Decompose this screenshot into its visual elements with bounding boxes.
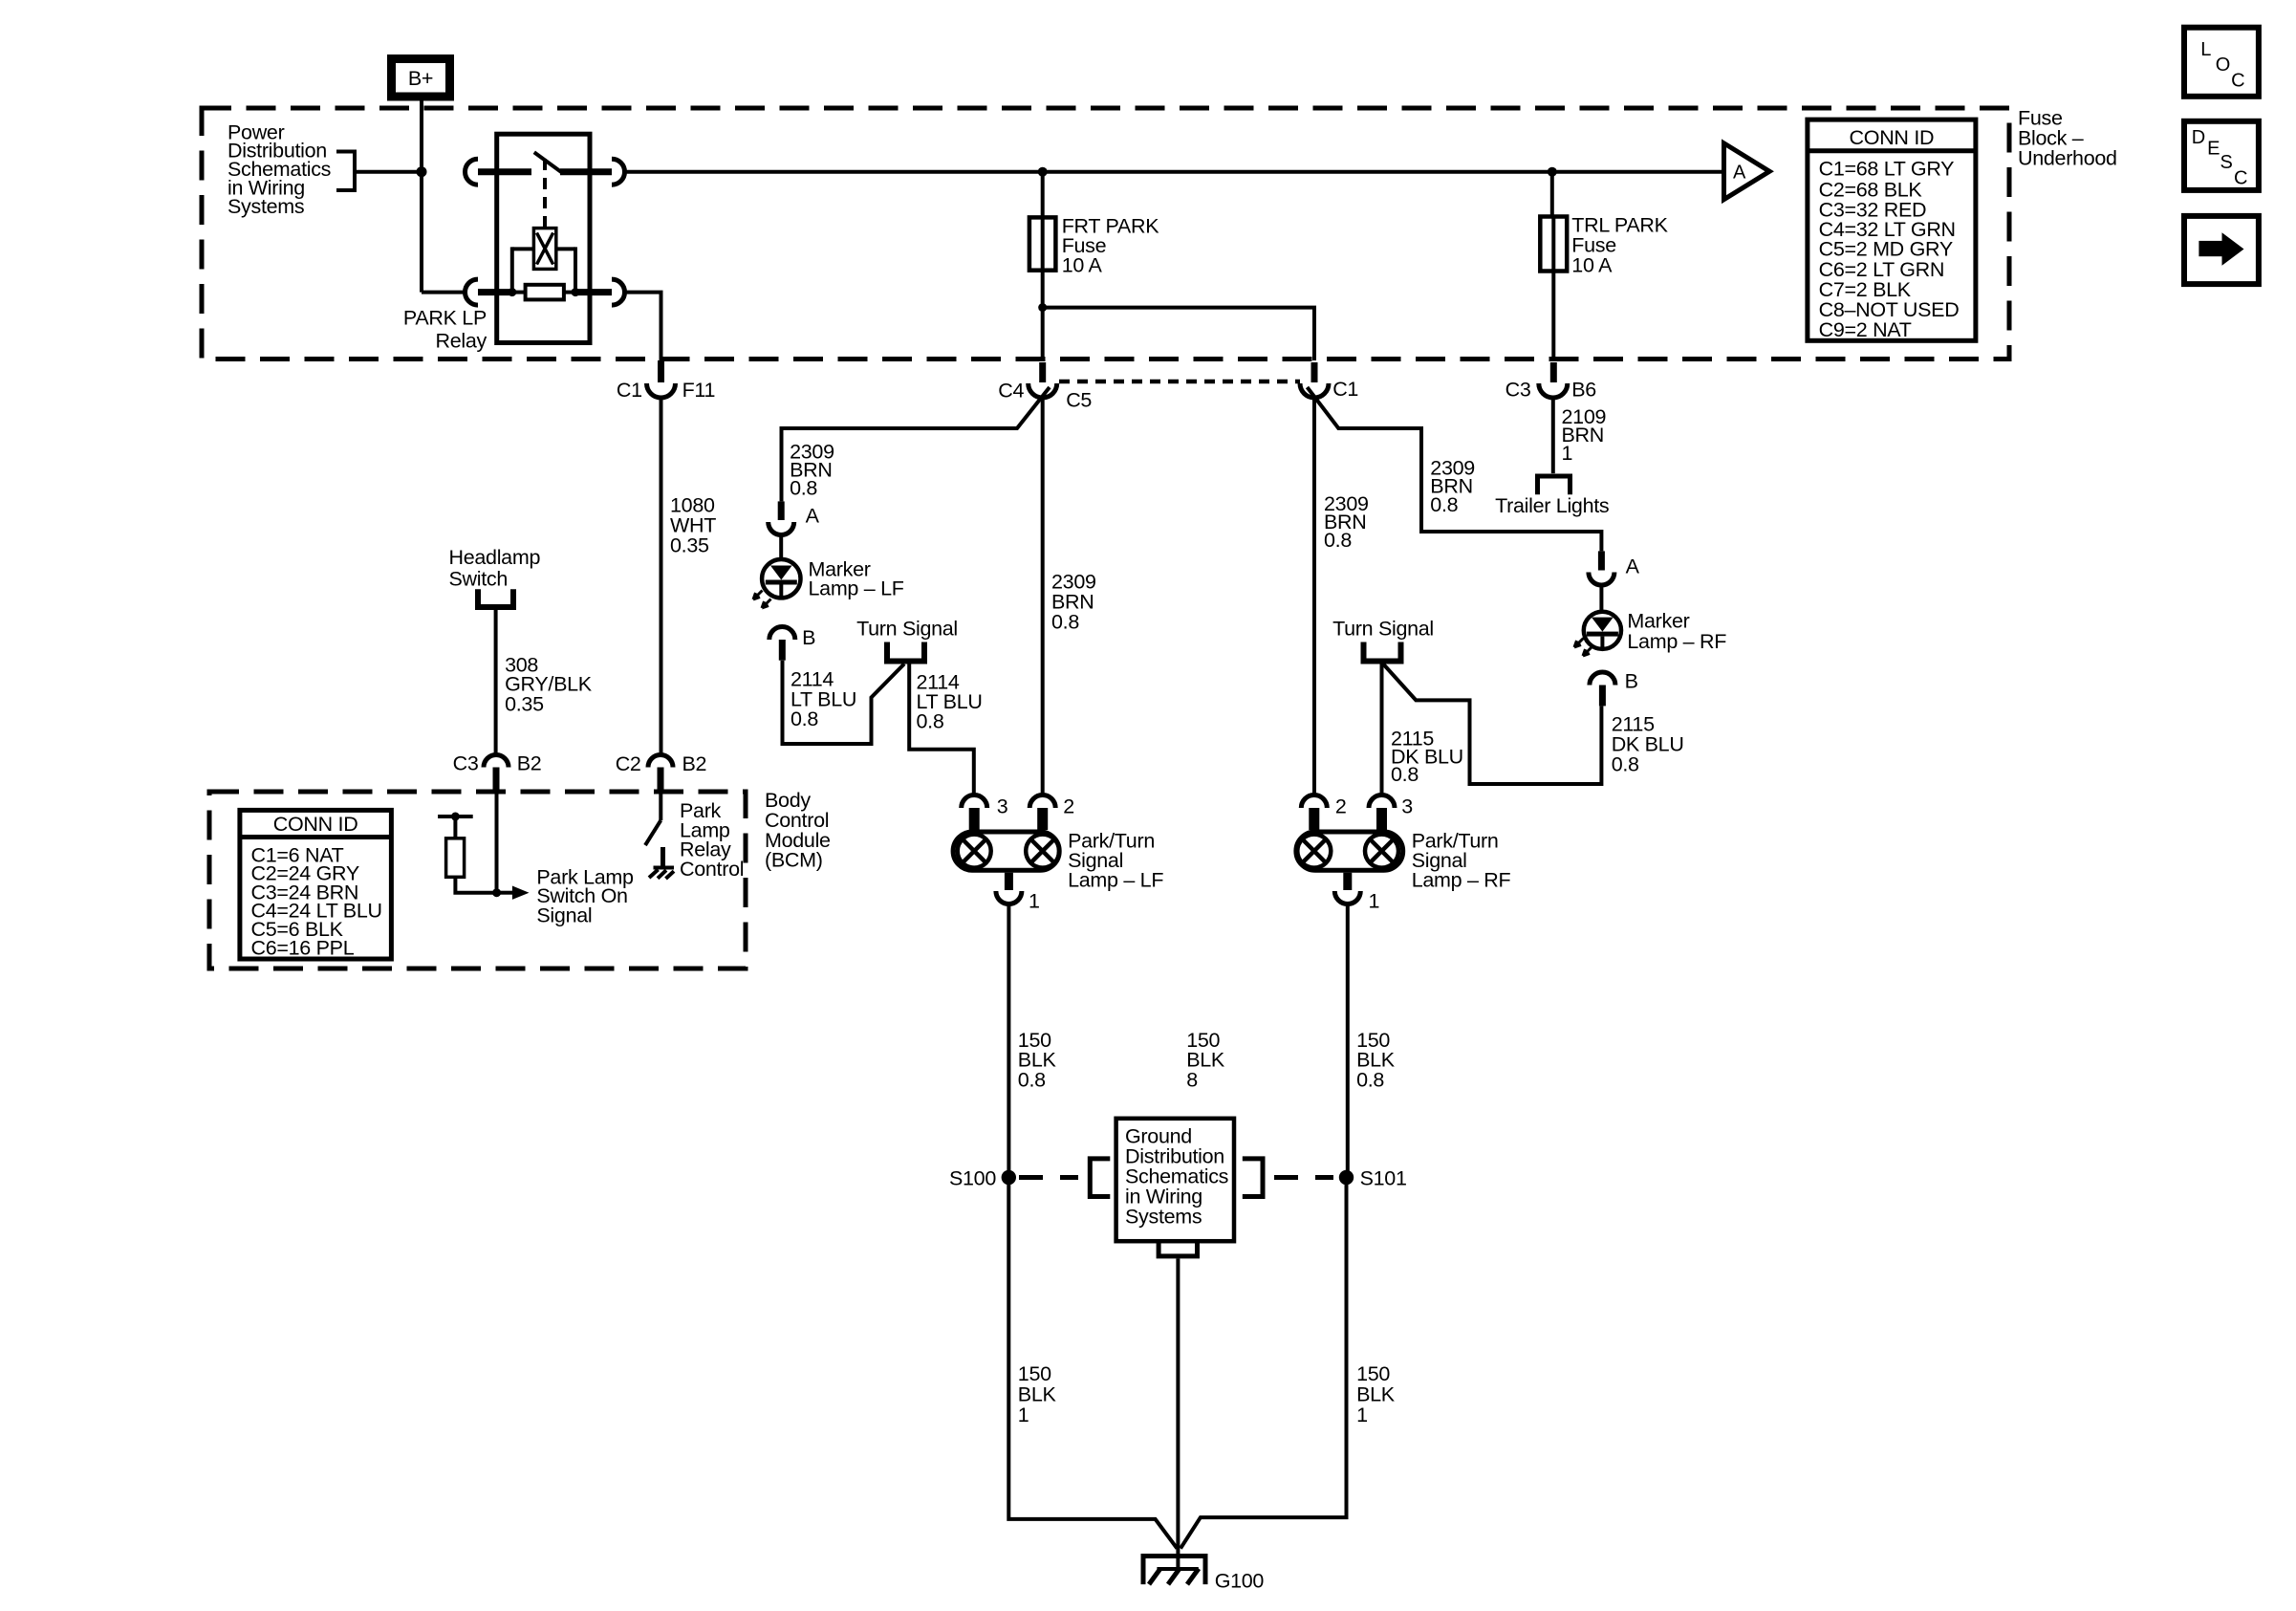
splice S100 (1002, 1170, 1016, 1185)
svg-text:S100: S100 (949, 1167, 996, 1190)
svg-text:C3: C3 (1505, 379, 1531, 402)
connector A (marker lamp RF) (1589, 551, 1640, 585)
connector C1/F11 (617, 360, 715, 402)
svg-text:Underhood: Underhood (2018, 147, 2117, 170)
svg-text:B: B (1625, 670, 1638, 693)
svg-text:Signal: Signal (536, 903, 592, 926)
label: 2309 BRN 0.8 (marker RF) (1430, 456, 1475, 516)
svg-text:L: L (2200, 39, 2211, 60)
relay actuator dashed link (543, 159, 547, 229)
svg-text:B2: B2 (682, 752, 707, 775)
relay PARK LP Relay (403, 134, 625, 353)
svg-text:Relay: Relay (436, 330, 487, 353)
svg-text:BLK: BLK (1018, 1383, 1057, 1406)
pin 3 (RF lamp) (1369, 795, 1395, 809)
label: 2309 BRN 0.8 (marker LF) (790, 440, 834, 499)
node: C5/C1 split (1038, 303, 1047, 312)
label: Marker Lamp - LF (809, 557, 904, 599)
connector A (marker lamp LF) (769, 501, 820, 534)
svg-text:C1: C1 (617, 379, 642, 402)
svg-text:B6: B6 (1571, 379, 1596, 402)
ground distribution schematics box (1116, 1119, 1234, 1241)
label: 2114 LT BLU 0.8 (917, 671, 983, 733)
svg-text:0.8: 0.8 (1051, 611, 1079, 634)
svg-text:Lamp – RF: Lamp – RF (1627, 630, 1726, 653)
wire: B+ feed vertical (420, 101, 423, 293)
connector C3/B6 (1505, 362, 1597, 402)
svg-text:BLK: BLK (1356, 1383, 1396, 1406)
svg-text:Switch: Switch (449, 568, 509, 591)
svg-text:A: A (1626, 555, 1640, 578)
svg-text:D: D (2192, 127, 2205, 148)
svg-text:1: 1 (1562, 442, 1573, 465)
svg-text:F11: F11 (682, 379, 716, 402)
label: 1080 WHT 0.35 (670, 494, 716, 557)
svg-text:8: 8 (1186, 1069, 1198, 1092)
wire: main bus relay to FRT PARK node (622, 170, 1041, 174)
svg-text:2: 2 (1063, 795, 1074, 817)
label: Body Control Module (BCM) (765, 789, 831, 872)
relay coil parallel branch (512, 247, 534, 250)
wire 150 BLK 0.8 (RF lamp to S101) (1346, 905, 1350, 1176)
svg-text:Turn Signal: Turn Signal (856, 618, 958, 641)
svg-text:0.8: 0.8 (1356, 1069, 1384, 1092)
label: Fuse Block - Underhood (2018, 107, 2117, 170)
svg-text:C5: C5 (1066, 389, 1092, 412)
svg-text:C1: C1 (1332, 378, 1358, 401)
pin 2 (LF lamp) (1029, 795, 1055, 809)
label: S100 (949, 1167, 996, 1190)
marker lamp LF (753, 559, 801, 608)
wire: A to lamp RF (1599, 585, 1603, 612)
bracket below ground distribution box (1159, 1241, 1197, 1256)
svg-text:C9=2 NAT: C9=2 NAT (1819, 318, 1912, 341)
label: 150 BLK 8 (1186, 1029, 1225, 1092)
wire 150 BLK 1 (S100 to G100) (1008, 1185, 1177, 1549)
label: 150 BLK 0.8 (right) (1356, 1029, 1396, 1092)
svg-text:C4: C4 (998, 380, 1024, 403)
label: 2309 BRN 0.8 (RF pin2) (1324, 492, 1369, 552)
label: 2114 LT BLU 0.8 (marker) (791, 668, 856, 730)
wire: main bus to off-page arrow (1553, 170, 1723, 174)
ground (BCM internal) (649, 847, 674, 879)
resistor (BCM internal) (453, 816, 457, 838)
connector B (marker lamp RF) (1590, 670, 1638, 707)
svg-text:0.8: 0.8 (790, 477, 817, 500)
svg-text:A: A (1733, 162, 1746, 183)
wire 2109 BRN 1 (1551, 398, 1555, 474)
svg-text:O: O (2216, 54, 2230, 76)
svg-text:C5=2 MD GRY: C5=2 MD GRY (1819, 237, 1953, 260)
svg-text:Control: Control (680, 858, 744, 881)
wire: C4 diagonal to marker lamp LF (782, 387, 1051, 501)
connector face dotted line (1059, 380, 1300, 384)
wire 308 GRY/BLK 0.35 (494, 610, 498, 754)
park/turn signal lamp RF (1296, 795, 1413, 912)
relay switch blade (534, 152, 561, 172)
headlamp switch (449, 546, 541, 607)
svg-text:Systems: Systems (1125, 1206, 1202, 1229)
label: 150 BLK 0.8 (1018, 1029, 1057, 1092)
wire 2115 DK BLU 0.8 (turn signal to marker RF) (1383, 664, 1601, 784)
DESC reference box (2184, 121, 2259, 190)
svg-text:0.8: 0.8 (1430, 493, 1458, 516)
label: 2115 DK BLU 0.8 (marker RF) (1612, 713, 1684, 776)
svg-text:B: B (802, 626, 815, 649)
svg-text:0.35: 0.35 (670, 534, 709, 557)
svg-text:Lamp – RF: Lamp – RF (1412, 869, 1511, 892)
turn signal source RF (1332, 618, 1434, 662)
label: 308 GRY/BLK 0.35 (505, 653, 593, 715)
svg-text:A: A (806, 505, 820, 528)
relay solid-state box (533, 229, 555, 270)
svg-text:150: 150 (1356, 1362, 1390, 1385)
wire: B+ node to relay coil (422, 291, 466, 294)
label: 150 BLK 1 (right) (1356, 1362, 1396, 1426)
svg-text:C6=16 PPL: C6=16 PPL (251, 936, 355, 959)
connector table CONN ID (fuse block underhood) (1808, 120, 1976, 341)
svg-text:C3: C3 (453, 752, 479, 775)
wire: relay coil output to C1/F11 (622, 293, 661, 360)
wire: TRL fuse to C3/B6 (1551, 272, 1555, 361)
label: 150 BLK 1 (left) (1018, 1362, 1057, 1426)
ground G100 (1143, 1549, 1205, 1584)
label: TRL PARK Fuse 10 A (1571, 214, 1668, 277)
svg-text:B2: B2 (517, 752, 542, 775)
LOC reference box (2184, 28, 2259, 97)
off-page reference bracket (336, 152, 355, 191)
svg-text:2: 2 (1335, 795, 1347, 817)
label: Park/Turn Signal Lamp - RF (1412, 830, 1511, 892)
node: B+ junction (417, 166, 427, 177)
wire: split to C1 drop (1043, 308, 1314, 360)
wire 150 BLK 8 (to G100) (1176, 1258, 1180, 1549)
wire 2309 BRN 0.8 (C5 to LF lamp) (1041, 398, 1045, 795)
label: 2309 BRN 0.8 (C5) (1051, 571, 1096, 634)
wire: C2 to BCM driver (659, 792, 662, 820)
connector table CONN ID (BCM) (240, 810, 392, 959)
node: park lamp switch junction (492, 888, 501, 897)
svg-text:C2: C2 (616, 752, 641, 775)
wire: C1 diagonal to marker lamp RF (1308, 387, 1602, 551)
svg-text:0.8: 0.8 (917, 710, 944, 733)
wire: fuse to C5 node (1041, 271, 1045, 360)
connector C2/B2 (616, 752, 706, 792)
label: Marker Lamp - RF (1627, 609, 1726, 652)
node: TRL PARK tap (1548, 167, 1557, 177)
wire: bracket to B+ node (355, 170, 420, 174)
BCM internal pull-up bar (438, 815, 473, 818)
svg-text:Marker: Marker (1627, 609, 1689, 632)
splice S101 (1339, 1170, 1354, 1185)
pin 2 (RF lamp) (1301, 795, 1327, 809)
trailer lights connector bracket (1538, 476, 1570, 494)
svg-text:10 A: 10 A (1062, 254, 1103, 277)
svg-text:C: C (2231, 71, 2244, 92)
wire 2309 BRN 0.8 (C1 to RF lamp) (1312, 398, 1316, 795)
svg-text:1: 1 (1018, 1404, 1029, 1426)
pin 1 (LF lamp) (1005, 873, 1013, 890)
label: Park/Turn Signal Lamp - LF (1068, 830, 1163, 892)
park/turn signal lamp LF (953, 795, 1074, 912)
fuse TRL PARK 10A (1540, 217, 1567, 272)
body control module dashed outline (209, 792, 746, 969)
svg-text:CONN ID: CONN ID (273, 813, 358, 836)
svg-text:1: 1 (1369, 890, 1380, 913)
svg-text:Lamp – LF: Lamp – LF (1068, 869, 1163, 892)
label: Park Lamp Switch On Signal (536, 866, 634, 927)
svg-text:1: 1 (1029, 890, 1040, 913)
svg-text:G100: G100 (1215, 1569, 1265, 1592)
wire: C3 into BCM (495, 794, 499, 891)
svg-text:0.35: 0.35 (505, 692, 544, 715)
svg-text:E: E (2207, 139, 2220, 160)
fuse block underhood dashed outline (202, 108, 2009, 359)
BCM driver switch blade (645, 820, 661, 845)
wire: tap to fuse (1041, 172, 1045, 218)
svg-text:10 A: 10 A (1571, 254, 1613, 277)
wire: main bus FRT node to TRL node (1044, 170, 1550, 174)
svg-text:0.8: 0.8 (1018, 1069, 1046, 1092)
off-page arrow A (1724, 143, 1770, 200)
svg-text:150: 150 (1018, 1362, 1051, 1385)
connector C3/B2 (453, 752, 542, 794)
label: FRT PARK Fuse 10 A (1062, 215, 1160, 277)
svg-text:PARK LP: PARK LP (403, 307, 487, 330)
label: S101 (1360, 1167, 1407, 1190)
connector C4/C5 (998, 362, 1092, 412)
dashed link to S101 (1274, 1175, 1333, 1180)
svg-text:CONN ID: CONN ID (1850, 126, 1935, 149)
svg-text:Lamp – LF: Lamp – LF (809, 577, 904, 600)
relay coil row (466, 279, 479, 305)
svg-text:B+: B+ (408, 67, 433, 90)
svg-text:S101: S101 (1360, 1167, 1407, 1190)
svg-text:Trailer Lights: Trailer Lights (1495, 494, 1609, 517)
wire 1080 WHT 0.35 (660, 398, 663, 755)
power symbol B+ (392, 59, 450, 98)
label: 2109 BRN 1 (1562, 405, 1607, 465)
connector C1 (lower) (1300, 362, 1358, 401)
signal arrow: Park Lamp Switch On Signal (498, 891, 512, 895)
svg-text:C: C (2234, 168, 2247, 189)
forward arrow box (2184, 216, 2259, 284)
svg-text:3: 3 (1401, 795, 1413, 817)
svg-text:C1=68 LT GRY: C1=68 LT GRY (1819, 158, 1955, 181)
wire 2114 LT BLU 0.8 (marker LF to turn signal) (783, 661, 905, 744)
label: Trailer Lights (1495, 494, 1609, 517)
wire: tap to TRL fuse (1550, 172, 1554, 217)
svg-text:Systems: Systems (227, 195, 304, 218)
connector B (marker lamp LF) (769, 626, 815, 661)
label: 2115 DK BLU 0.8 (1391, 728, 1463, 786)
svg-text:1: 1 (1356, 1404, 1368, 1426)
svg-text:0.8: 0.8 (791, 708, 818, 730)
note: Power Distribution Schematics in Wiring Systems (227, 120, 331, 218)
pin 1 (RF lamp) (1343, 873, 1352, 890)
turn signal source LF (856, 618, 958, 662)
bracket right (ground distribution) (1243, 1159, 1263, 1197)
wire 150 BLK 1 (S101 to G100) (1180, 1185, 1347, 1549)
wire: A to lamp (779, 534, 783, 559)
dashed link S100 to ground distribution (1019, 1175, 1078, 1180)
svg-text:0.8: 0.8 (1391, 763, 1419, 786)
wire 2115 DK BLU 0.8 (turn signal to RF pin 3) (1380, 662, 1384, 796)
wire 2114 LT BLU 0.8 (turn signal to BCM pin 3) (909, 662, 974, 796)
bracket left (ground distribution) (1090, 1159, 1110, 1197)
svg-text:0.8: 0.8 (1324, 529, 1352, 552)
svg-text:0.8: 0.8 (1612, 753, 1639, 776)
svg-text:Headlamp: Headlamp (449, 546, 541, 569)
marker lamp RF (1574, 612, 1621, 656)
svg-text:Turn Signal: Turn Signal (1332, 618, 1434, 641)
svg-text:(BCM): (BCM) (765, 849, 823, 872)
svg-text:S: S (2220, 152, 2233, 173)
svg-text:3: 3 (997, 795, 1008, 817)
node: FRT PARK tap (1038, 167, 1048, 177)
fuse FRT PARK 10A (1029, 217, 1056, 270)
label: G100 (1215, 1569, 1265, 1592)
wire 150 BLK 0.8 (LF lamp to S100) (1007, 905, 1010, 1176)
label: Park Lamp Relay Control (680, 799, 744, 881)
pin 3 (LF lamp) (962, 795, 987, 808)
